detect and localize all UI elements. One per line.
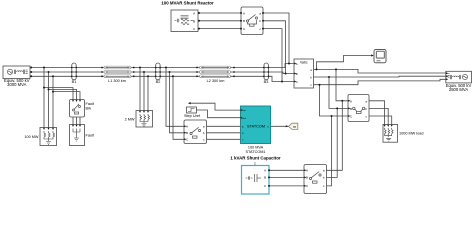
junction dots <box>30 63 343 118</box>
wire top breaker a down to bus A <box>263 13 289 64</box>
wire branch A to fault breaker <box>44 88 73 99</box>
wire shunt reactor to breaker A <box>198 12 241 14</box>
svg-text:L1 300 km: L1 300 km <box>108 79 126 83</box>
svg-text:STATCOM1: STATCOM1 <box>245 150 265 154</box>
wire Trip signal to STATCOM <box>190 103 241 110</box>
wire fault breaker to fault block C <box>79 117 81 124</box>
wire Vabc out a to right source pin1 <box>314 69 446 73</box>
fault block (three-phase fault) <box>70 125 95 146</box>
wire drop a to breaker2 A <box>336 69 348 100</box>
svg-text:Uref: Uref <box>242 117 247 120</box>
svg-text:Vabc: Vabc <box>300 61 308 65</box>
wire capacitor A to cap breaker <box>269 169 304 171</box>
wire tap B to 2MW load <box>143 72 145 110</box>
source V2 Equiv. 500 kV 2500 MVA <box>446 71 472 92</box>
capacitor breaker block <box>304 165 327 194</box>
load 1000 MW <box>383 124 423 142</box>
svg-text:Fault: Fault <box>86 134 95 138</box>
wire capacitor B to cap breaker <box>269 176 304 178</box>
svg-text:3000 MVA: 3000 MVA <box>7 82 26 87</box>
wire phase B main bus <box>30 72 294 74</box>
line L1 300 km <box>101 66 135 83</box>
wire tap A to 2MW load <box>139 68 141 111</box>
svg-text:1 kVAR Shunt Capacitor: 1 kVAR Shunt Capacitor <box>230 155 280 160</box>
wire to scope <box>317 56 373 70</box>
svg-text:A: A <box>243 11 245 15</box>
wire statcom breaker to STATCOM C <box>207 138 241 140</box>
wire fault breaker to fault block A <box>72 117 74 124</box>
svg-text:B: B <box>264 176 266 180</box>
step block Step Uref <box>184 107 201 118</box>
scope block <box>371 50 386 63</box>
wire fault breaker to fault block B <box>76 117 78 124</box>
statcom breaker block <box>184 120 207 144</box>
svg-text:B: B <box>296 72 298 76</box>
line L2 300 km <box>196 66 235 83</box>
wire tap C to 2MW load <box>147 76 149 110</box>
svg-text:B: B <box>193 19 195 23</box>
wire B2 tap B to statcom breaker <box>170 72 184 133</box>
goto tag m <box>286 123 298 129</box>
svg-text:2500 MVA: 2500 MVA <box>449 87 468 92</box>
shunt reactor block <box>171 10 200 32</box>
svg-text:B: B <box>306 176 308 180</box>
svg-text:A: A <box>296 62 298 66</box>
svg-text:B3: B3 <box>264 80 269 84</box>
wire tap B to 100MW load <box>48 72 50 128</box>
wire down to capacitor breaker b <box>327 108 338 177</box>
fault breaker block <box>70 100 95 118</box>
svg-text:m: m <box>293 125 296 129</box>
wire down to capacitor breaker a <box>327 101 343 171</box>
svg-text:100 MW: 100 MW <box>24 135 39 139</box>
svg-text:Step Uref: Step Uref <box>184 114 201 118</box>
wire tap A to 100MW load <box>43 68 45 128</box>
svg-text:1000 MW load: 1000 MW load <box>399 132 423 136</box>
svg-text:Brk: Brk <box>86 107 92 111</box>
STATCOM block <box>241 106 271 154</box>
wire B2 tap A to statcom breaker <box>166 68 184 127</box>
bus B1 <box>71 63 77 84</box>
wire shunt reactor to breaker B <box>198 20 241 22</box>
wire drop c to breaker2 C <box>320 85 349 116</box>
wire STATCOM m output to tag <box>271 125 289 127</box>
svg-text:B: B <box>350 107 352 111</box>
wire capacitor C to cap breaker <box>269 185 304 187</box>
wire drop b to breaker2 B <box>329 77 348 108</box>
wire breaker2 b to load <box>369 108 388 124</box>
breaker right (load breaker) <box>348 95 369 122</box>
bus B2 <box>155 63 161 84</box>
wire Vabc out b to right source pin2 <box>314 75 446 78</box>
wire statcom breaker to STATCOM A <box>207 125 241 127</box>
wire breaker2 c to load <box>369 116 392 124</box>
bus B3 <box>263 63 269 84</box>
wire branch C to fault breaker <box>53 92 80 99</box>
svg-text:B: B <box>186 131 188 135</box>
wire tap C to 100MW load <box>52 76 54 127</box>
svg-text:100 MVAR Shunt Reactor: 100 MVAR Shunt Reactor <box>161 1 214 6</box>
svg-text:STATCOM: STATCOM <box>247 125 265 129</box>
svg-text:B: B <box>243 19 245 23</box>
wire breaker2 a to load <box>369 101 385 125</box>
source V1 Equiv. 500 kV 3000 MVA <box>3 66 30 87</box>
Vabc measurement block <box>294 59 314 88</box>
wire top breaker c down to bus C <box>263 29 282 82</box>
svg-text:Fault: Fault <box>86 102 95 106</box>
svg-text:L2 300 km: L2 300 km <box>207 79 225 83</box>
load 100 MW <box>24 128 56 146</box>
svg-text:A: A <box>264 169 266 173</box>
load 2 MW <box>125 111 153 128</box>
wire statcom breaker to STATCOM B <box>207 132 241 134</box>
svg-text:A: A <box>306 169 308 173</box>
svg-text:C: C <box>296 80 298 84</box>
wire down to capacitor breaker c <box>327 116 332 186</box>
wire Vabc out c to right source pin3 <box>314 79 446 84</box>
trip arrow (left-pointing arrowhead) <box>188 102 191 104</box>
wire Step Uref to STATCOM <box>197 110 241 118</box>
wire B2 tap C to statcom breaker <box>173 76 184 139</box>
svg-text:A: A <box>193 12 195 16</box>
wire branch B to fault breaker <box>49 89 77 99</box>
wire phase A main bus <box>30 64 294 68</box>
svg-text:m: m <box>267 126 269 128</box>
svg-text:A: A <box>350 99 352 103</box>
wire shunt reactor to breaker C <box>198 28 241 30</box>
wire phase C main bus <box>30 76 294 81</box>
wire top breaker b down to bus B <box>263 21 286 74</box>
svg-text:B2: B2 <box>156 80 161 84</box>
breaker top (shunt reactor breaker) <box>240 7 264 35</box>
svg-text:2 MW: 2 MW <box>125 118 135 122</box>
svg-text:A: A <box>186 125 188 129</box>
shunt capacitor block <box>242 166 271 195</box>
svg-text:B1: B1 <box>72 80 77 84</box>
